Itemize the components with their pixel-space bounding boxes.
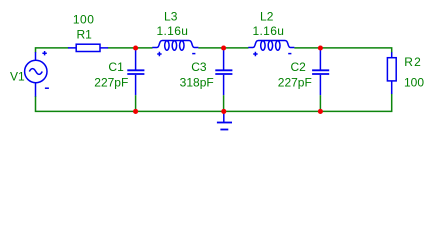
- svg-text:C1: C1: [108, 60, 124, 74]
- svg-text:100: 100: [404, 76, 424, 90]
- wire L2 to node C: [294, 47, 320, 49]
- svg-text:L2: L2: [260, 9, 274, 23]
- wire node C to R2 top: [320, 48, 391, 53]
- resistor R1: [68, 44, 108, 51]
- inductor L2: [248, 41, 294, 57]
- capacitor C2: [312, 48, 329, 111]
- wire L3 to node B: [198, 47, 223, 49]
- inductor L3: [152, 41, 198, 57]
- svg-text:R2: R2: [404, 55, 421, 69]
- svg-text:1.16u: 1.16u: [156, 24, 188, 38]
- svg-text:C3: C3: [191, 60, 207, 74]
- wire node E to node D: [136, 110, 224, 112]
- svg-text:100: 100: [73, 13, 94, 27]
- wire node D to V1 minus terminal: [36, 96, 136, 111]
- wire from V1 plus terminal to R1: [36, 48, 69, 53]
- wire R1 to node A: [108, 47, 136, 49]
- svg-text:1.16u: 1.16u: [252, 24, 284, 38]
- node F junction dot: [318, 109, 323, 114]
- svg-text:V1: V1: [10, 70, 25, 84]
- node A junction dot: [133, 45, 138, 50]
- wire R2 bottom to node F: [320, 94, 391, 112]
- node C junction dot: [318, 45, 323, 50]
- capacitor C3: [215, 48, 232, 111]
- wire node A to L3: [136, 47, 153, 49]
- capacitor C1: [127, 48, 144, 111]
- resistor R2: [387, 52, 396, 94]
- svg-text:L3: L3: [164, 9, 178, 23]
- wire node B to L2: [224, 47, 249, 49]
- node B junction dot: [221, 45, 226, 50]
- svg-text:227pF: 227pF: [278, 75, 312, 89]
- svg-text:318pF: 318pF: [180, 75, 214, 89]
- node E junction dot: [221, 109, 226, 114]
- svg-text:227pF: 227pF: [94, 75, 128, 89]
- node D junction dot: [133, 109, 138, 114]
- voltage source V1: [25, 51, 49, 97]
- svg-text:R1: R1: [77, 28, 93, 42]
- ground: [217, 112, 232, 130]
- wire node F to node E: [224, 110, 321, 112]
- svg-text:C2: C2: [291, 60, 307, 74]
